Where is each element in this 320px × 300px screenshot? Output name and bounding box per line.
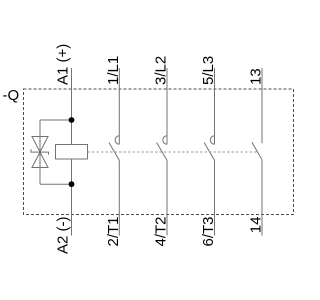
wire pole 1/L1 top <box>118 68 120 144</box>
svg-text:A1 (+): A1 (+) <box>54 44 71 85</box>
suppressor zener bar <box>31 149 49 154</box>
contact fixed-arc pole L3 <box>210 136 214 144</box>
contact blade pole L2 <box>157 143 167 161</box>
wire pole 5/L3 top <box>214 68 216 144</box>
junction node A2/suppressor bottom <box>69 181 75 187</box>
contact blade pole L1 <box>109 143 119 161</box>
svg-text:A2 (-): A2 (-) <box>54 216 71 254</box>
wire pole 6/T3 bottom <box>214 160 216 235</box>
wire pole 3/L2 top <box>166 68 168 144</box>
wire pole 13 top <box>261 68 263 143</box>
contact blade pole 13-14 <box>252 142 262 160</box>
wire pole 2/T1 bottom <box>118 160 120 235</box>
wire pole 14 bottom <box>261 160 263 236</box>
svg-text:-Q: -Q <box>3 87 20 104</box>
contact blade pole L3 <box>204 143 214 161</box>
suppressor diode top triangle <box>32 137 48 153</box>
contact fixed-arc pole L1 <box>115 136 119 144</box>
suppressor diode bottom triangle <box>32 152 48 167</box>
wire branch bottom horizontal from suppressor <box>40 183 72 185</box>
junction node A1/suppressor top <box>69 117 75 123</box>
coil K (rectangle) <box>56 145 88 160</box>
mechanical linkage (dashed) coil to contacts <box>88 151 258 153</box>
wire A1 top vertical <box>71 68 73 145</box>
wire branch top horizontal to suppressor <box>40 119 72 121</box>
wire A1 bottom vertical (through to A2) <box>71 159 73 236</box>
wire branch left vertical (through suppressor) <box>39 120 41 184</box>
wire pole 4/T2 bottom <box>166 160 168 235</box>
contact fixed-arc pole L2 <box>163 136 167 144</box>
dashed enclosure box -Q <box>24 89 294 215</box>
